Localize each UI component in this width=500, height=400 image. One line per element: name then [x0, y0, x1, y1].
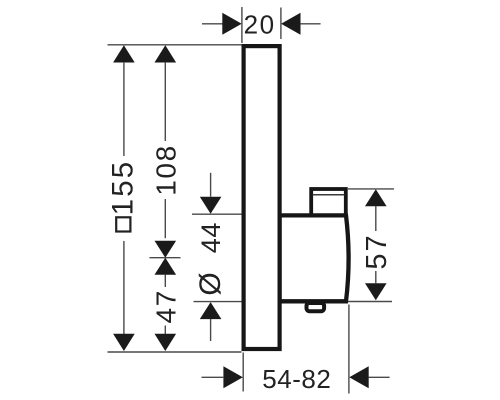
dim 54-82: right arrow (left-pointing) [349, 366, 368, 388]
handle (control knob side view) [311, 189, 346, 216]
dim 54-82: left tail [202, 376, 224, 378]
svg-text:155: 155 [106, 160, 139, 216]
dim 20: right arrow [281, 13, 300, 35]
valve body (escutcheon side view, bulged front) [280, 215, 349, 301]
dim 54-82: right tail [368, 376, 389, 378]
svg-text:44: 44 [196, 222, 226, 253]
dim 20: right extension line [280, 8, 282, 40]
dim 108: top arrow [155, 45, 177, 62]
svg-text:108: 108 [151, 144, 182, 196]
dim 54-82: left arrow (right-pointing) [223, 366, 242, 388]
svg-text:54-82: 54-82 [262, 364, 331, 394]
dim 155: square symbol [116, 217, 130, 231]
dim 44: lower outside line [210, 319, 212, 341]
dim 44: upper arrow (down, outside) [200, 197, 222, 214]
svg-text:57: 57 [361, 233, 393, 269]
dim 47: top arrow (up) [155, 258, 177, 275]
wall plate (side view, 20 thick) [244, 46, 280, 349]
dim 108: upper line segment [164, 62, 166, 141]
dim 54-82: right extension line [348, 305, 350, 394]
dim 44: bottom extension line (body bottom) [194, 301, 242, 303]
extension line bottom-left reference (plate bottom) [108, 351, 242, 353]
dim 155: top arrow [113, 45, 135, 62]
dim 44: upper outside line [210, 173, 212, 197]
junction tick at 108/47 [150, 257, 181, 259]
handle inner line [313, 194, 345, 196]
dim 57: bottom arrow (down) [365, 283, 387, 300]
dim 155: lower line segment [123, 241, 125, 334]
dim 20: left tail [202, 23, 223, 25]
bottom tab (clip) [307, 303, 325, 311]
dim 108: lower line segment [164, 199, 166, 238]
dim 57: upper line segment [375, 206, 377, 231]
dim 20: left arrow [222, 13, 241, 35]
dim 54-82: left extension line [242, 353, 244, 392]
dim 155: upper line segment [123, 62, 125, 156]
dim 57: top arrow (up) [365, 189, 387, 206]
dim 47: upper line segment [164, 275, 166, 288]
dim 44: lower arrow (up, outside) [200, 302, 222, 319]
dim 155: bottom arrow [113, 334, 135, 351]
dim 20: right tail [300, 23, 320, 25]
dim 57: top extension line (handle top) [347, 188, 394, 190]
dim 44: top extension line (body top) [192, 213, 242, 215]
dim 47: bottom arrow [155, 334, 177, 351]
svg-text:47: 47 [151, 289, 182, 323]
dim 57: bottom extension line (body bottom) [348, 301, 392, 303]
dim 20: left extension line [241, 7, 243, 43]
dim 108: bottom arrow (down) [155, 241, 177, 258]
svg-text:20: 20 [244, 10, 276, 40]
svg-text:Ø: Ø [194, 272, 227, 295]
dim 47: lower line segment [164, 326, 166, 335]
extension line top-left reference (plate top) [108, 44, 242, 46]
dim 57: lower line segment [375, 271, 377, 283]
